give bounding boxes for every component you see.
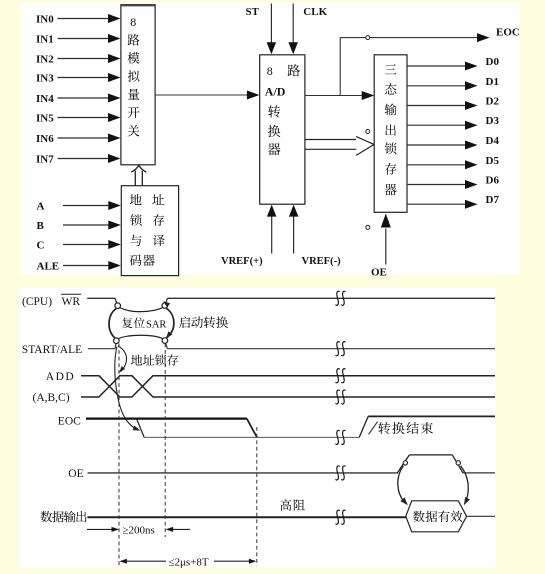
svg-text:EOC: EOC (58, 416, 81, 428)
output D0: wire, arrowhead, label (407, 56, 499, 71)
break mark (336, 390, 346, 404)
label 数据有效 (data valid) (413, 511, 425, 522)
shape: barrel bottom arc (119, 335, 163, 338)
input IN3: label, wire and arrowhead (36, 72, 121, 84)
svg-text:D0: D0 (486, 56, 500, 68)
wire: START/ALE waveform left segment (88, 344, 116, 349)
svg-text:IN4: IN4 (36, 93, 54, 105)
svg-text:A/D: A/D (265, 85, 286, 99)
input VREF(+): label, wire, arrowhead (221, 205, 276, 267)
svg-text:8: 8 (130, 15, 136, 29)
svg-text:D1: D1 (486, 76, 499, 88)
input IN7: label, wire and arrowhead (36, 153, 121, 165)
dashed guide line 1 (x=119) (118, 344, 120, 567)
arrowhead: callout tip at bottom transition (166, 331, 172, 338)
svg-text:(CPU): (CPU) (22, 296, 52, 308)
svg-text:D2: D2 (486, 96, 500, 108)
svg-text:D4: D4 (486, 135, 500, 147)
break mark (336, 430, 346, 444)
break mark (336, 291, 346, 305)
bus: U3 to U4 data bus (hollow arrow) (305, 137, 374, 156)
wire: EOC high segment (86, 418, 247, 420)
break mark (336, 466, 346, 480)
label 地址锁存 (address latched) (131, 355, 142, 366)
dimension <=2us+8T (119, 556, 256, 568)
dashed guide line 2 (x=165) (164, 344, 166, 538)
input IN0: label, wire and arrowhead (36, 13, 121, 25)
svg-text:8: 8 (267, 64, 273, 78)
input A: label, wire and arrowhead (37, 200, 121, 212)
svg-text:A: A (37, 200, 45, 212)
output D5: wire, arrowhead, label (407, 155, 499, 169)
svg-text:D7: D7 (486, 194, 500, 206)
svg-text:WR: WR (62, 296, 81, 308)
svg-text:IN7: IN7 (36, 153, 54, 165)
input B: label, wire and arrowhead (37, 220, 121, 232)
output D3: wire, arrowhead, label (407, 115, 499, 130)
svg-text:IN3: IN3 (36, 72, 54, 84)
wire: data output high-Z segment (87, 516, 406, 518)
wire: WR-bar waveform right segment (166, 298, 495, 303)
block U3: 8-channel A/D converter (8路A/D转换器) (260, 55, 305, 204)
wire: EOC net riser and horizontal run (340, 33, 489, 95)
node: OE falling corner circle (456, 461, 460, 465)
callout arc to 地址锁存 (118, 346, 127, 373)
node: transition circle top-right (162, 303, 168, 309)
shape: WR/START transition barrel right arc (166, 308, 174, 338)
wire: U1 output to U3 input (155, 91, 259, 100)
wire: EOC low segment (144, 436, 359, 438)
svg-text:IN6: IN6 (36, 133, 54, 145)
input CLK: label, wire, arrowhead (288, 4, 327, 55)
svg-text:≥200ns: ≥200ns (123, 525, 155, 537)
bus arrow: U2 to U1 (hollow double-line arrow) (131, 165, 146, 186)
label 复位SAR (reset SAR) (122, 317, 166, 330)
node: transition circle bottom-left (114, 338, 120, 344)
break mark (336, 342, 346, 356)
svg-text:OE: OE (68, 468, 83, 480)
node: transition circle top-left (115, 303, 121, 309)
label 转换结束 (conversion end) (378, 422, 390, 434)
block U1: 8-channel analog switch (8路模拟量开关) (120, 5, 155, 165)
dashed guide line 3 (x=257) (256, 427, 258, 566)
input IN6: label, wire and arrowhead (36, 133, 121, 145)
break mark (336, 369, 346, 383)
shape: data valid hexagon (406, 501, 467, 532)
svg-text:≤2μs+8T: ≤2μs+8T (169, 556, 209, 568)
svg-text:EOC: EOC (496, 27, 520, 39)
input IN1: label, wire and arrowhead (36, 33, 121, 45)
wire: OE waveform (88, 455, 496, 473)
bus: ADD/(A,B,C) waveform with two crossings (81, 376, 495, 397)
label 数据输出 (data output) (40, 511, 52, 522)
svg-text:IN1: IN1 (36, 33, 54, 45)
leader to 转换结束 (369, 422, 378, 435)
node: transition circle bottom-right (162, 338, 168, 344)
node: OE rising corner circle (403, 461, 407, 465)
shape: WR/START transition barrel left arc (109, 308, 117, 338)
label 启动转换 (start conversion) (179, 316, 190, 328)
input IN4: label, wire and arrowhead (36, 93, 121, 105)
bottom timing white panel (20, 288, 496, 569)
output D4: wire, arrowhead, label (407, 135, 499, 150)
svg-text:ST: ST (246, 6, 260, 18)
svg-text:ADD: ADD (46, 371, 75, 383)
curved arrow: OE fall to data valid end (461, 466, 470, 506)
node: open junction on EOC line (366, 36, 370, 40)
svg-text:D3: D3 (486, 115, 500, 127)
wire: EOC falling edge 2 (247, 419, 257, 438)
arrowhead: callout tip at top transition (163, 301, 170, 307)
svg-text:CLK: CLK (303, 6, 327, 18)
wire: EOC rising edge right (359, 416, 368, 437)
input IN2: label, wire and arrowhead (36, 53, 121, 65)
output D1: wire, arrowhead, label (407, 76, 499, 90)
svg-text:IN0: IN0 (36, 13, 54, 25)
wire: EOC high right segment (368, 415, 495, 417)
top diagram white panel (21, 3, 520, 275)
svg-text:(A,B,C): (A,B,C) (33, 392, 70, 404)
wire: WR-bar waveform left segment (87, 298, 116, 303)
input ALE: label, wire and arrowhead (37, 260, 121, 272)
svg-text:D5: D5 (486, 155, 500, 167)
dimension >=200ns (87, 525, 190, 537)
svg-text:ALE: ALE (37, 260, 60, 272)
svg-text:C: C (37, 239, 45, 251)
svg-text:SAR: SAR (146, 319, 166, 330)
input OE: wire, arrowhead, label (371, 214, 391, 279)
curved arrow: OE rise to data valid (398, 466, 408, 505)
output D6: wire, arrowhead, label (407, 175, 499, 190)
svg-text:IN2: IN2 (36, 53, 54, 65)
label 高阻 (high impedance) (280, 499, 291, 511)
node: open junction near OE (366, 225, 370, 229)
svg-text:IN5: IN5 (36, 112, 54, 124)
input ST: label, wire, arrowhead (246, 4, 277, 55)
input VREF(-): label, wire, arrowhead (289, 205, 341, 267)
svg-text:START/ALE: START/ALE (22, 344, 82, 356)
input IN5: label, wire and arrowhead (36, 112, 121, 124)
curved arrow: from transition to EOC falling edge (115, 347, 141, 431)
svg-text:OE: OE (371, 267, 387, 279)
node: open junction above data bus (366, 130, 370, 134)
block U4: tri-state output latch (三态输出锁存器) (374, 55, 407, 213)
input C: label, wire and arrowhead (37, 239, 121, 251)
break mark (336, 510, 346, 524)
svg-text:B: B (37, 220, 45, 232)
wire: EOC falling edge 1 (137, 419, 145, 437)
svg-text:VREF(+): VREF(+) (221, 256, 263, 267)
label (CPU) WR-bar (22, 294, 81, 308)
svg-text:D6: D6 (486, 175, 500, 187)
svg-text:VREF(-): VREF(-) (302, 256, 342, 267)
output D2: wire, arrowhead, label (407, 96, 499, 111)
wire: U3 output to U4 input (305, 91, 374, 100)
output D7: wire, arrowhead, label (407, 194, 499, 209)
shape: barrel top arc (120, 308, 162, 312)
wire: START/ALE waveform right segment (166, 344, 495, 349)
wire: data output right segment (467, 515, 495, 517)
block U2: address latch & decoder (地址锁存与译码器) (121, 186, 178, 276)
